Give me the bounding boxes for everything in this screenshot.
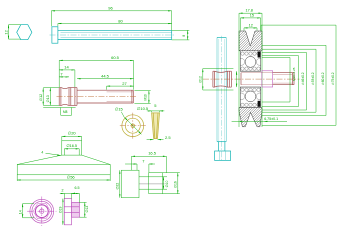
svg-text:12: 12 xyxy=(3,29,8,34)
svg-text:M8: M8 xyxy=(63,110,68,114)
svg-text:6.75±0.1: 6.75±0.1 xyxy=(264,117,278,121)
svg-text:2: 2 xyxy=(62,188,64,192)
svg-text:14: 14 xyxy=(18,210,22,214)
svg-text:∅22: ∅22 xyxy=(116,183,120,190)
svg-text:∅20: ∅20 xyxy=(68,131,77,136)
svg-text:∅16.5: ∅16.5 xyxy=(66,144,77,148)
svg-text:∅10: ∅10 xyxy=(165,181,169,188)
svg-text:17.8: 17.8 xyxy=(246,8,253,12)
svg-text:∅15: ∅15 xyxy=(115,106,124,111)
svg-text:M10×1.25: M10×1.25 xyxy=(292,67,296,81)
svg-text:15: 15 xyxy=(250,14,254,18)
svg-text:∅53±0.2: ∅53±0.2 xyxy=(311,72,315,85)
svg-text:12: 12 xyxy=(249,23,253,27)
svg-text:∅56: ∅56 xyxy=(67,174,76,179)
svg-text:14: 14 xyxy=(64,65,69,70)
svg-text:∅13: ∅13 xyxy=(46,95,50,102)
svg-text:∅46±0.2: ∅46±0.2 xyxy=(301,72,305,85)
svg-text:80: 80 xyxy=(118,18,123,23)
svg-text:∅12: ∅12 xyxy=(39,94,43,101)
svg-text:8: 8 xyxy=(182,35,186,37)
svg-text:16.5: 16.5 xyxy=(148,150,157,155)
svg-text:M10: M10 xyxy=(144,94,148,100)
svg-text:6.5: 6.5 xyxy=(75,186,80,190)
svg-text:96: 96 xyxy=(108,6,113,11)
svg-text:2.5: 2.5 xyxy=(165,135,171,140)
svg-text:∅60±0.2: ∅60±0.2 xyxy=(321,72,325,85)
svg-text:4: 4 xyxy=(41,150,43,154)
svg-text:60.5: 60.5 xyxy=(111,55,120,60)
svg-text:∅13: ∅13 xyxy=(85,206,89,213)
svg-text:27: 27 xyxy=(122,81,127,86)
svg-text:∅75±0.2: ∅75±0.2 xyxy=(331,72,335,85)
svg-text:∅10.5: ∅10.5 xyxy=(137,106,149,111)
svg-text:∅19: ∅19 xyxy=(59,206,63,213)
svg-text:∅16: ∅16 xyxy=(173,181,177,188)
svg-text:44.5: 44.5 xyxy=(101,74,110,79)
svg-text:∅12: ∅12 xyxy=(198,76,202,83)
